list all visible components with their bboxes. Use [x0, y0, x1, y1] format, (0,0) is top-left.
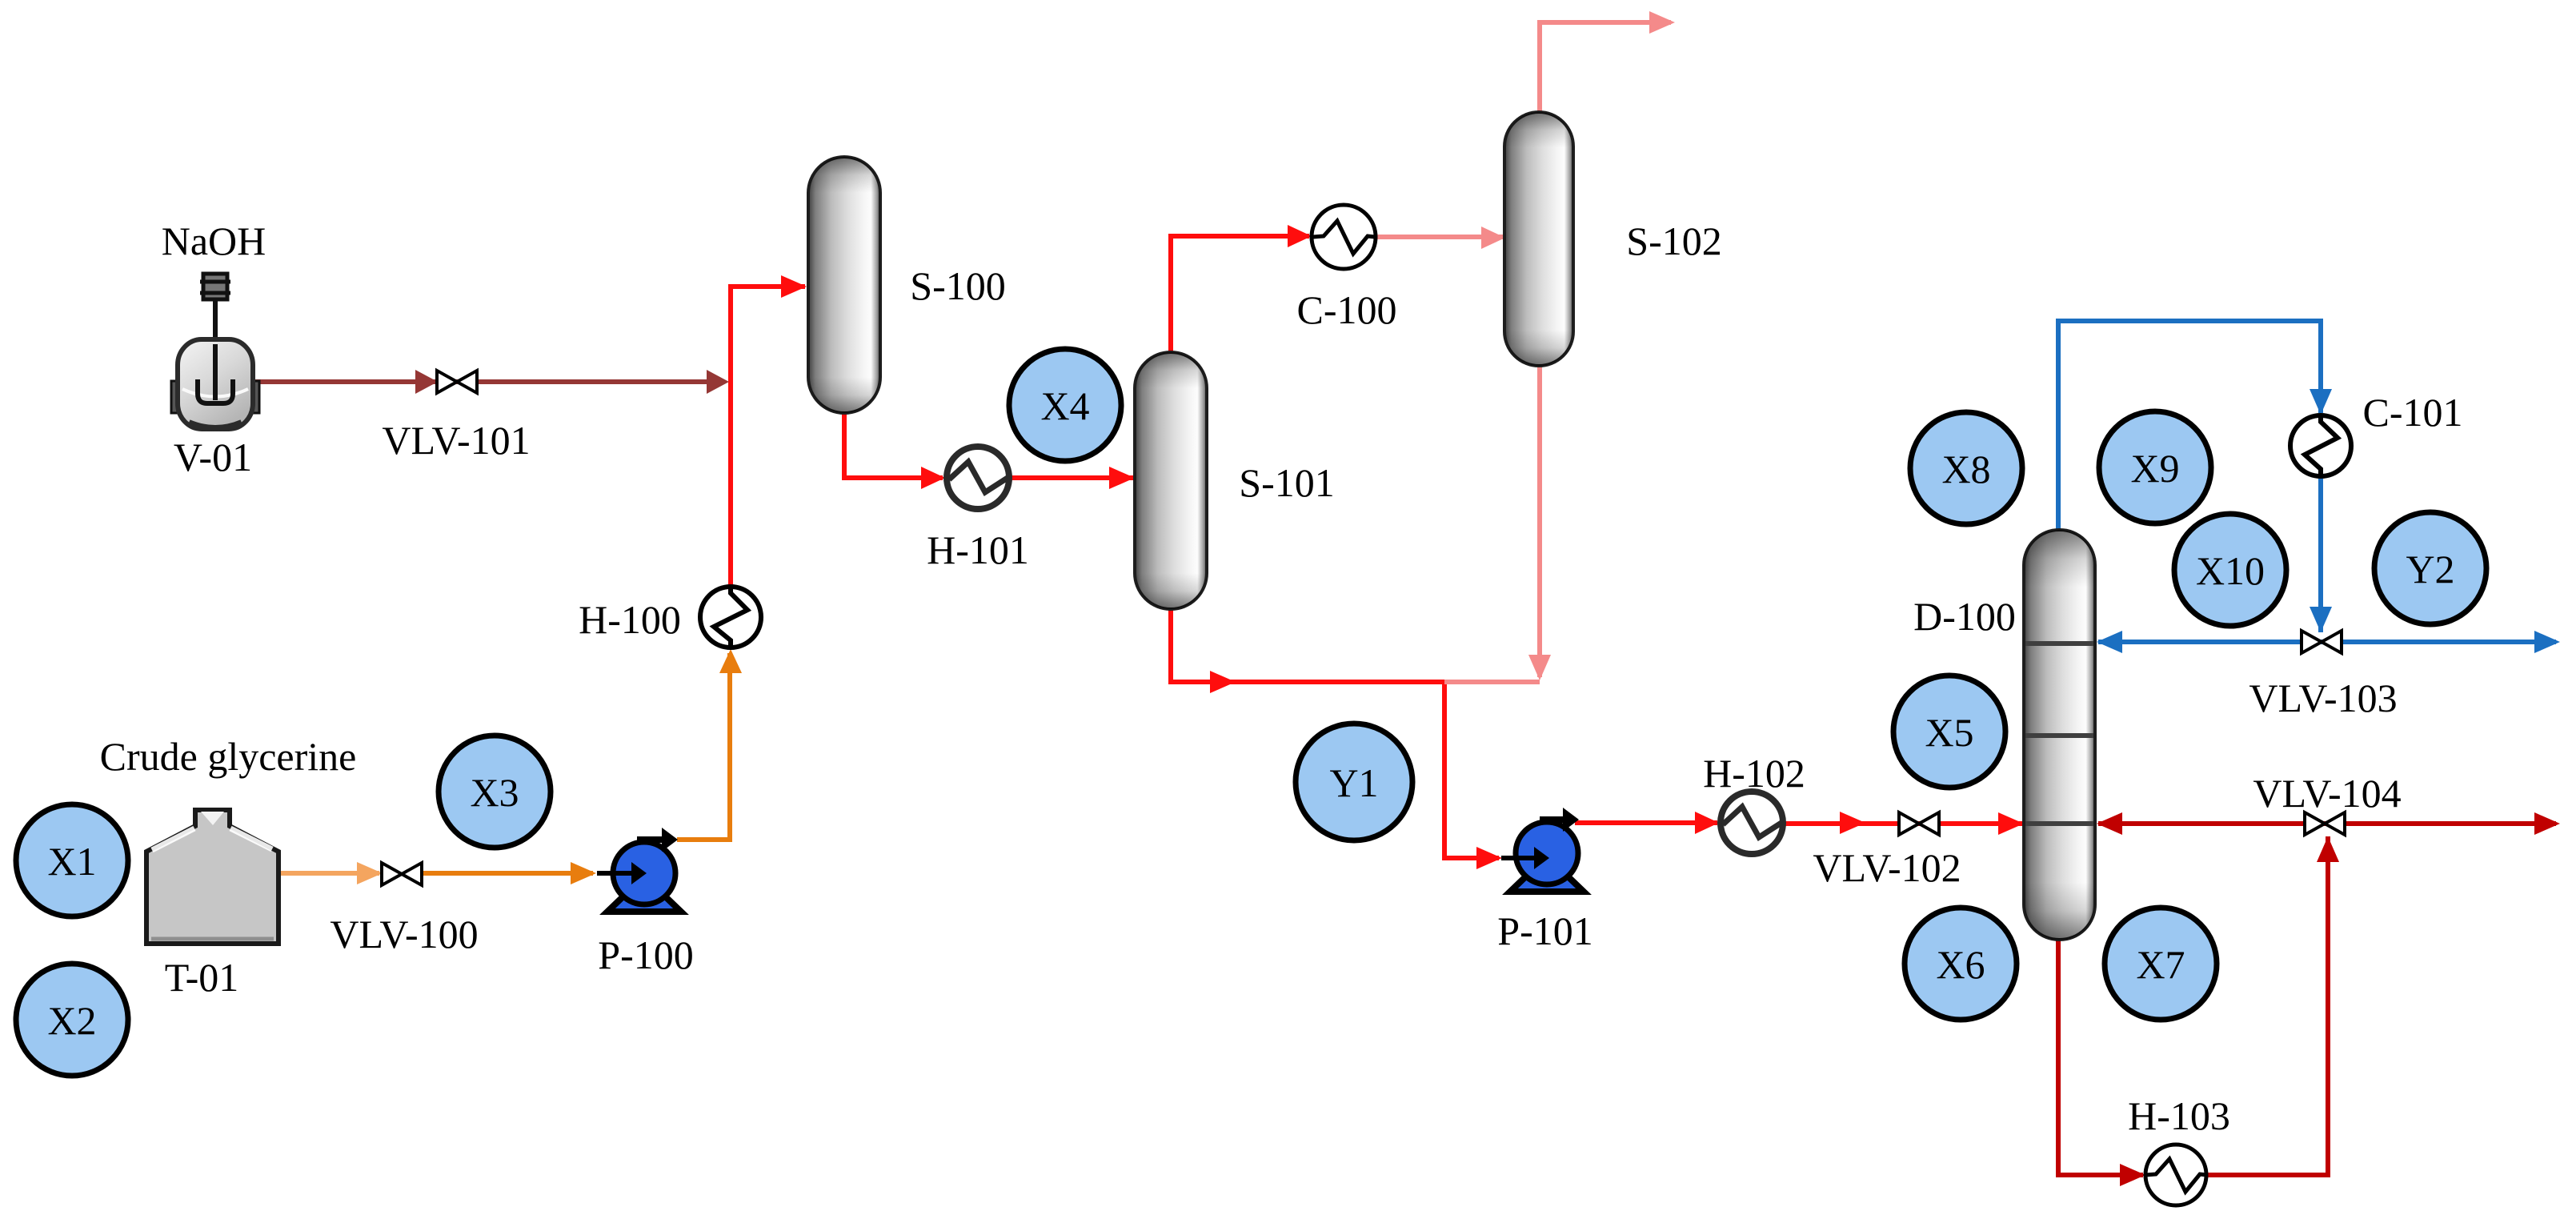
svg-text:X3: X3: [470, 770, 519, 815]
svg-text:VLV-104: VLV-104: [2253, 771, 2401, 816]
svg-text:T-01: T-01: [165, 955, 239, 1000]
svg-text:NaOH: NaOH: [162, 219, 266, 263]
svg-text:VLV-102: VLV-102: [1813, 845, 1961, 890]
svg-text:X7: X7: [2136, 942, 2185, 987]
svg-text:Y1: Y1: [1329, 760, 1378, 805]
svg-text:P-100: P-100: [598, 932, 693, 977]
svg-text:X6: X6: [1936, 942, 1985, 987]
svg-text:C-100: C-100: [1297, 287, 1397, 332]
svg-text:X1: X1: [47, 839, 96, 884]
svg-text:H-100: H-100: [579, 597, 681, 642]
svg-text:X4: X4: [1040, 383, 1089, 428]
svg-text:V-01: V-01: [174, 435, 252, 479]
svg-text:S-102: S-102: [1626, 219, 1721, 263]
svg-text:X2: X2: [47, 998, 96, 1043]
svg-text:X8: X8: [1941, 447, 1990, 491]
svg-text:C-101: C-101: [2363, 390, 2463, 435]
svg-text:X5: X5: [1925, 710, 1973, 755]
svg-text:P-101: P-101: [1497, 908, 1592, 953]
svg-text:VLV-101: VLV-101: [382, 418, 530, 463]
svg-text:X10: X10: [2196, 548, 2265, 593]
svg-text:Y2: Y2: [2406, 547, 2454, 591]
svg-text:H-101: H-101: [927, 527, 1029, 572]
svg-text:S-101: S-101: [1239, 460, 1334, 505]
svg-text:Crude glycerine: Crude glycerine: [100, 734, 357, 779]
svg-text:VLV-103: VLV-103: [2249, 676, 2397, 720]
svg-text:X9: X9: [2130, 446, 2179, 491]
svg-text:S-100: S-100: [910, 263, 1005, 308]
svg-text:D-100: D-100: [1913, 594, 2016, 639]
svg-text:VLV-100: VLV-100: [330, 912, 478, 956]
svg-text:H-102: H-102: [1703, 751, 1805, 796]
svg-text:H-103: H-103: [2128, 1093, 2230, 1138]
